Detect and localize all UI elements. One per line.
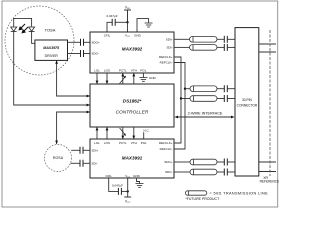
wire host tx- xyxy=(259,51,276,53)
wire driver out+ xyxy=(68,41,81,43)
wire rosa out- xyxy=(71,162,81,164)
svg-text:DS1862*: DS1862* xyxy=(123,98,142,103)
wire VTH up xyxy=(133,73,135,84)
wire SDI- line xyxy=(174,46,190,48)
wire top rail xyxy=(14,18,32,26)
wire VCC pin xyxy=(127,22,129,32)
svg-text:POL: POL xyxy=(140,69,146,73)
TOSA dashed circle xyxy=(5,6,74,75)
wire host rx+ xyxy=(259,161,276,163)
svg-text:DRIVER: DRIVER xyxy=(45,54,59,58)
wire driver out- xyxy=(68,53,81,55)
controller U3 DS1862 box xyxy=(90,84,174,127)
transmission line TL4 xyxy=(190,96,217,102)
wire rosa ctrl xyxy=(57,112,90,144)
svg-text:GND: GND xyxy=(134,34,142,38)
svg-text:SDI-: SDI- xyxy=(167,46,173,50)
border frame xyxy=(2,1,278,207)
capacitor C7 xyxy=(224,36,227,43)
svg-text:TOSA: TOSA xyxy=(45,28,56,33)
wire rosa out+ xyxy=(71,149,80,151)
svg-text:VTH: VTH xyxy=(131,141,137,145)
wire VTH down xyxy=(133,127,135,139)
capacitor C1 xyxy=(81,39,84,46)
svg-text:LOL: LOL xyxy=(94,141,100,145)
svg-text:30-PIN: 30-PIN xyxy=(242,98,253,102)
wire LOL down xyxy=(96,73,98,84)
light arrows into D1 xyxy=(19,24,28,33)
POL N.C. stub xyxy=(143,132,145,139)
svg-text:SDI+: SDI+ xyxy=(92,148,99,152)
svg-text:SDI+: SDI+ xyxy=(166,37,173,41)
svg-text:LOS: LOS xyxy=(104,141,110,145)
svg-text:0.047µF: 0.047µF xyxy=(112,183,123,187)
wire driver bias xyxy=(57,60,90,96)
svg-text:2-WIRE INTERFACE: 2-WIRE INTERFACE xyxy=(188,111,223,115)
CDR U4 MAX3991 box xyxy=(90,139,174,178)
svg-text:CFIL: CFIL xyxy=(104,34,111,38)
transmission line TL5 xyxy=(190,159,217,165)
ground POL xyxy=(139,78,147,82)
transmission line TL6 xyxy=(190,169,217,175)
wire PCTL down with adjust arrow xyxy=(122,127,124,139)
svg-text:SDI-: SDI- xyxy=(92,161,98,165)
connector J1 30-pin box xyxy=(235,28,259,176)
diode D1 monitor photodiode xyxy=(11,27,17,31)
capacitor C4 xyxy=(80,147,83,154)
capacitor C2 xyxy=(81,50,84,57)
node VDD junction xyxy=(126,21,128,23)
svg-text:POL: POL xyxy=(141,141,147,145)
svg-text:SDO-: SDO- xyxy=(165,170,173,174)
ROSA dashed circle xyxy=(45,145,72,172)
transmission line TL3 xyxy=(190,86,217,92)
capacitor C8 xyxy=(224,44,227,51)
wire host tx+ xyxy=(259,43,276,45)
capacitor C10 xyxy=(224,95,227,102)
arrowhead into controller MD xyxy=(87,104,90,107)
wire REFCLK- vertical xyxy=(174,63,185,150)
svg-text:SDO-: SDO- xyxy=(92,52,100,56)
capacitor C12 xyxy=(224,169,227,176)
wire REFCLK+ vertical xyxy=(174,57,181,143)
svg-text:SDO+: SDO+ xyxy=(164,160,173,164)
wire SDI+ line xyxy=(174,38,190,40)
svg-text:N.C.: N.C. xyxy=(144,128,150,132)
svg-text:MAX3992: MAX3992 xyxy=(122,46,143,51)
XFI reference plane dashed xyxy=(269,30,271,176)
svg-text:LOS: LOS xyxy=(104,69,110,73)
wire SDO- line xyxy=(174,171,190,173)
legend transmission line symbol xyxy=(185,191,206,195)
svg-text:0.047µF: 0.047µF xyxy=(106,14,117,18)
2-wire interface arrow xyxy=(176,116,233,118)
ground bottom xyxy=(137,178,140,184)
svg-text:*FUTURE PRODUCT: *FUTURE PRODUCT xyxy=(185,197,220,201)
wire LOS down xyxy=(106,73,108,84)
svg-text:= 50Ω TRANSMISSION LINE: = 50Ω TRANSMISSION LINE xyxy=(210,191,269,195)
svg-text:CFIL: CFIL xyxy=(105,174,112,178)
svg-text:REFCLK+: REFCLK+ xyxy=(159,141,173,145)
wire POL to ground xyxy=(142,73,144,78)
capacitor C5 xyxy=(80,160,83,167)
wire PCTL up with adjust arrow xyxy=(122,73,124,84)
node refclk- junction xyxy=(184,88,186,90)
svg-text:PCTL: PCTL xyxy=(119,141,127,145)
CDR U2 MAX3992 box xyxy=(90,32,174,73)
svg-text:REFCLK-: REFCLK- xyxy=(160,147,173,151)
svg-text:CONTROLLER: CONTROLLER xyxy=(116,110,149,116)
wire refclk+ branch xyxy=(181,98,190,100)
transmission line TL1 xyxy=(190,37,218,43)
node VCC junction xyxy=(127,190,129,192)
wire refclk- branch xyxy=(185,88,190,90)
svg-text:LOL: LOL xyxy=(94,69,100,73)
VCC supply bottom xyxy=(127,178,129,197)
svg-text:MAX3975: MAX3975 xyxy=(43,46,60,50)
wire D2 to driver xyxy=(32,31,35,43)
wire D1 down to controller (MD) xyxy=(14,31,90,105)
svg-text:CONNECTOR: CONNECTOR xyxy=(237,103,258,107)
VDD supply xyxy=(124,10,131,22)
capacitor C9 xyxy=(224,85,227,92)
svg-text:REFCLK-: REFCLK- xyxy=(160,61,173,65)
svg-text:VTH: VTH xyxy=(131,69,137,73)
svg-text:ROSA: ROSA xyxy=(53,156,64,160)
driver U1 MAX3975 box xyxy=(35,40,68,60)
capacitor C11 xyxy=(224,159,227,166)
svg-text:SDO+: SDO+ xyxy=(92,40,101,44)
bottom pins row: LOL LOS up arrows xyxy=(96,127,98,139)
diode D2 laser diode xyxy=(29,27,35,31)
node refclk+ junction xyxy=(180,97,182,99)
svg-text:MAX3991: MAX3991 xyxy=(122,155,143,160)
transmission line TL2 xyxy=(190,45,218,51)
ground top xyxy=(137,19,149,32)
svg-text:PCTL: PCTL xyxy=(119,69,127,73)
wire host rx- xyxy=(259,171,276,173)
wire SDO+ line xyxy=(174,161,190,163)
svg-text:REFCLK+: REFCLK+ xyxy=(159,55,173,59)
svg-text:GND: GND xyxy=(149,76,157,80)
svg-text:GND: GND xyxy=(133,174,141,178)
svg-text:REFERENCE: REFERENCE xyxy=(260,179,280,183)
